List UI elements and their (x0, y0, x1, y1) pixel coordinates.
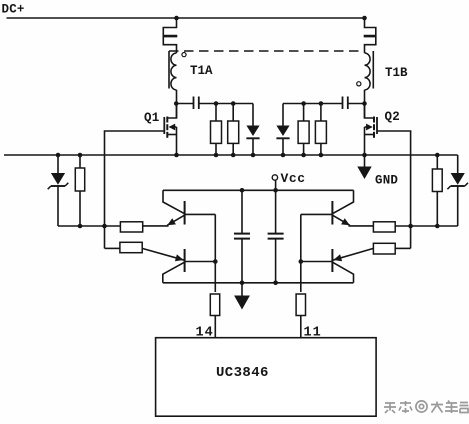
wire snubber diode D2 to cap (283, 103, 343, 105)
wire snubber Rd top (320, 104, 322, 122)
transformer core (dashed coupling line) (169, 50, 362, 52)
watermark text (384, 401, 469, 414)
wire snubber Rb top (232, 104, 234, 122)
wire snubber Ra top (215, 104, 217, 122)
wire zener DZ1 bottom (57, 186, 59, 226)
junction gate node at Rg1 (78, 224, 83, 229)
transformer T1A core bar (168, 51, 170, 89)
junction bus at diode D1 (251, 153, 256, 158)
resistor snubber Rd (315, 121, 326, 143)
transistor Q6 collector (333, 262, 354, 283)
wire Q5 emitter to R3 (349, 225, 374, 227)
transformer T1B primary winding (365, 18, 376, 53)
junction gate node at Q1 gate line (102, 224, 107, 229)
transistor Q4 base bar (184, 249, 186, 272)
node Q1 drain junction (174, 101, 179, 106)
wire GND stub (364, 155, 366, 167)
ic UC3846 box (156, 338, 377, 417)
wire snubber Ra bottom (215, 143, 217, 155)
junction T1A top (174, 16, 179, 21)
wire Q2 gate lead (377, 131, 411, 226)
junction gnd rail at C3 (240, 281, 245, 286)
capacitor C2 (coupling, right) (342, 97, 344, 110)
wire Q2 gate line lower (410, 226, 412, 248)
mosfet Q1 channel (166, 117, 168, 123)
wire driver input left (214, 214, 216, 292)
capacitor C1 (coupling, left) (193, 97, 195, 110)
ground symbol (234, 296, 250, 310)
resistor R6 (pin 11) (296, 294, 305, 316)
junction Vcc rail at Vcc (273, 188, 278, 193)
terminal Vcc (272, 175, 277, 180)
transistor Q5 base bar (331, 201, 333, 225)
wire diode D1 bottom (252, 138, 254, 155)
wire T1B to Q2 drain (364, 90, 366, 118)
resistor R4 (gate drive off, right) (373, 243, 395, 254)
wire ground stub (241, 283, 243, 296)
resistor snubber Ra (211, 121, 222, 143)
wire snubber Rc top (303, 104, 305, 122)
junction bus at resistor left (78, 153, 83, 158)
transistor Q3 collector (163, 190, 184, 213)
transistor Q6 base bar (331, 249, 333, 272)
svg-text:Q2: Q2 (385, 110, 400, 124)
transistor Q4 emitter (142, 248, 184, 260)
svg-text:DC+: DC+ (2, 3, 25, 17)
transistor Q3 base bar (184, 201, 186, 225)
wire resistor Rg1 top (79, 155, 81, 168)
svg-text:Vcc: Vcc (281, 171, 306, 186)
resistor R2 (gate drive off, left) (120, 242, 142, 252)
svg-text:GND: GND (375, 174, 398, 188)
transformer T1B secondary winding (365, 53, 371, 90)
transformer T1A secondary winding (171, 53, 177, 90)
svg-text:Q1: Q1 (144, 111, 159, 125)
mosfet Q1 body arrow (170, 126, 177, 128)
mosfet Q1 drain lead (167, 104, 176, 119)
svg-text:T1A: T1A (190, 64, 213, 78)
wire snubber Rb bottom (232, 143, 234, 155)
junction bus at zener left (56, 153, 61, 158)
phase dot T1B (357, 82, 361, 86)
wire gate node left (58, 225, 120, 227)
wire zener DZ2 bottom (457, 186, 459, 226)
wire Q3 base (185, 213, 216, 215)
junction Q2 source (362, 153, 367, 158)
resistor snubber Rc (298, 121, 309, 143)
junction gate node at Rg2 (435, 224, 440, 229)
wire bus corner to zener DZ2 (457, 155, 459, 173)
junction snubber R top a (214, 101, 219, 106)
wire pin 11 (300, 316, 302, 339)
junction bus at snubber Rc (301, 153, 306, 158)
wire R2 to gate line (105, 247, 120, 249)
wire Q3 emitter to R1 (143, 225, 169, 227)
junction driver bases left (213, 259, 218, 264)
mosfet Q1 source lead (167, 134, 176, 136)
diode D2 (276, 126, 289, 137)
junction gnd rail at C4 (273, 281, 278, 286)
wire R4 to gate line (395, 247, 410, 249)
transistor Q6 emitter (333, 248, 374, 260)
wire zener DZ1 top (57, 155, 59, 173)
phase dot T1A (182, 53, 186, 57)
junction driver bases right (299, 259, 304, 264)
mosfet Q2 source lead (365, 134, 375, 136)
wire source bus (4, 154, 458, 156)
wire Q1 drain to coupling cap (177, 103, 194, 105)
wire diode D2 bottom (282, 138, 284, 155)
wire Q1 gate line lower (104, 226, 106, 248)
wire snubber Rc bottom (303, 143, 305, 155)
junction snubber R top c (301, 101, 306, 106)
resistor snubber Rb (228, 121, 239, 143)
mosfet Q1 gate bar (163, 117, 165, 134)
wire DC+ rail (7, 17, 365, 19)
junction bus at snubber Rb (231, 153, 236, 158)
wire pin 14 (214, 316, 216, 339)
junction Q1 source (174, 153, 179, 158)
transformer T1B core bar (372, 51, 374, 89)
wire cap to snubber diode D1 (199, 103, 253, 105)
transistor Q5 collector (333, 190, 354, 213)
junction bus at pulldown right (435, 153, 440, 158)
node Q2 drain junction (362, 101, 367, 106)
resistor R3 (gate drive on, right) (373, 222, 395, 232)
resistor R1 (gate drive on, left) (120, 222, 142, 232)
wire gate node right (395, 225, 458, 227)
wire resistor Rg1 bottom (79, 191, 81, 226)
junction T1B top (362, 16, 367, 21)
svg-text:UC3846: UC3846 (216, 365, 269, 381)
junction snubber R top b (231, 101, 236, 106)
wire cap to Q2 drain (348, 103, 365, 105)
wire snubber Rd bottom (320, 143, 322, 155)
wire resistor Rg2 top (436, 155, 438, 169)
wire diode D2 top (282, 104, 284, 126)
transistor Q3 emitter (167, 215, 184, 225)
junction snubber R top d (319, 101, 324, 106)
wire Q6 base (301, 261, 333, 263)
capacitor C4 (275, 190, 277, 233)
junction bus at snubber Rd (319, 153, 324, 158)
capacitor C3 (241, 190, 243, 233)
wire Q1 gate lead (105, 131, 165, 226)
junction bus at diode D2 (281, 153, 286, 158)
wire resistor Rg2 bottom (436, 192, 438, 227)
transistor Q5 emitter (333, 215, 350, 225)
resistor Rg1 (gate pulldown left) (75, 168, 84, 191)
wire Q5 base (301, 213, 333, 215)
wire driver ground rail (163, 282, 354, 284)
wire driver Vcc rail (163, 189, 354, 191)
wire Q4 base (185, 261, 216, 263)
junction bus at snubber Ra (214, 153, 219, 158)
wire diode D1 top (252, 104, 254, 126)
junction gate node at Q2 gate line (408, 224, 413, 229)
ground GND arrow (357, 167, 371, 180)
diode D1 (246, 126, 259, 137)
zener DZ2 (451, 173, 465, 185)
resistor R5 (pin 14) (210, 294, 219, 316)
svg-text:T1B: T1B (385, 66, 408, 80)
transformer T1A primary winding (163, 18, 176, 53)
mosfet Q2 gate bar (376, 117, 378, 134)
junction Vcc rail at C3 (240, 188, 245, 193)
mosfet Q2 body arrow (365, 126, 372, 128)
wire driver input right (300, 214, 302, 292)
mosfet Q2 drain lead (365, 104, 375, 119)
mosfet Q2 channel (373, 117, 375, 123)
transistor Q4 collector (163, 262, 185, 283)
wire T1A to Q1 drain (176, 90, 178, 118)
resistor Rg2 (gate pulldown right) (432, 169, 442, 192)
wire Vcc to rail (275, 180, 277, 190)
zener DZ1 (51, 173, 65, 185)
